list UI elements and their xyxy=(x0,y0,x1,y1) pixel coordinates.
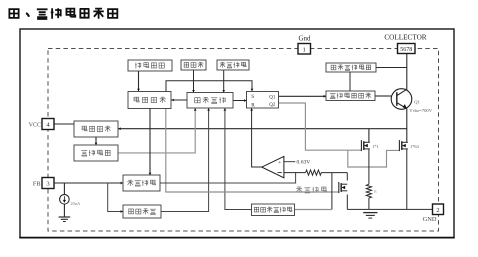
block 峰值电流保护 xyxy=(252,204,295,216)
current source 20uA xyxy=(60,195,70,205)
wire 振荡电路 to 变频控制 xyxy=(149,109,152,176)
wire comparator output to SR latch R input xyxy=(252,108,262,167)
wire LEB switch source down to ground bus xyxy=(346,195,348,210)
svg-text:COLLECTOR: COLLECTOR xyxy=(384,33,426,41)
wire current source to ground xyxy=(63,204,65,217)
transistor M2 mirror MOSFET 1*63 xyxy=(399,140,408,151)
wire right MOSFET source to ground bus xyxy=(406,149,408,210)
IC boundary (dashed) xyxy=(48,49,439,232)
svg-text:Vcbo=700V: Vcbo=700V xyxy=(409,108,432,113)
block 异常保护 xyxy=(187,93,233,109)
svg-text:2: 2 xyxy=(436,207,439,214)
block 热保护 xyxy=(181,60,206,70)
wire comparator plus input to 0.63V xyxy=(284,161,295,163)
block 变频控制 xyxy=(123,175,160,191)
svg-text:Q2: Q2 xyxy=(269,103,276,108)
wire 振荡电路 to SR latch S input xyxy=(166,81,252,92)
wire minus network down to 峰值电流保护 node xyxy=(331,173,333,210)
wire COLLECTOR pin to Q1 collector xyxy=(406,54,408,90)
wire 峰值电流保护 output xyxy=(295,209,332,211)
wire supply rail from Q1 emitter to 电源管理 (long horizontal) xyxy=(117,127,407,130)
wire sense resistor to ground bus xyxy=(368,198,370,209)
block 斜坡电流驱动 xyxy=(326,91,375,101)
wire 异常保护 to 振荡电路 (shutdown) xyxy=(171,99,187,102)
svg-text:Gnd: Gnd xyxy=(298,35,311,43)
wire 高压恒流启动 to collector line xyxy=(376,67,407,69)
wire 变频控制 output to comparator minus network xyxy=(160,173,296,183)
ground (FB current source) xyxy=(59,217,71,222)
block 电源异常 xyxy=(74,145,118,161)
ground (sense resistor) xyxy=(363,213,377,219)
wire 热保护 to 异常保护 xyxy=(192,70,195,93)
wire VCC pin4 to 电源管理 xyxy=(54,123,74,125)
svg-text:FB: FB xyxy=(33,181,41,188)
block 电源管理 xyxy=(74,121,118,137)
wire 电源异常 to 异常保护 xyxy=(118,108,195,153)
block 高压恒流启动 xyxy=(326,63,376,72)
transistor Q1 (NPN) xyxy=(391,89,412,110)
wire Q1 emitter down to MOSFET drain xyxy=(406,109,408,143)
svg-text:Q1: Q1 xyxy=(269,95,276,100)
SR latch U1 xyxy=(247,92,279,109)
svg-text:R: R xyxy=(251,103,255,109)
wire minus network to LEB switch drain xyxy=(346,173,348,181)
resistor R sense (vertical) xyxy=(366,184,371,198)
title 四、内部电路框图 xyxy=(9,8,117,19)
pin 3 (FB) xyxy=(42,178,54,189)
svg-text:R: R xyxy=(374,189,377,194)
wire SR latch Q1 to 斜坡电流驱动 xyxy=(279,95,327,98)
block 超压保护 xyxy=(217,60,249,70)
resistor R blanking (horizontal, on minus input) xyxy=(306,170,322,175)
wire 抖频控制 to 振荡电路 xyxy=(137,71,140,91)
wire FB pin3 to 变频控制 xyxy=(54,182,123,185)
wire FB branch to 光耦失效 xyxy=(108,183,123,212)
wire 峰值电流保护 to 异常保护 xyxy=(225,108,252,210)
wire 超压保护 to 异常保护 xyxy=(222,70,225,93)
wire 光耦失效 to 异常保护 xyxy=(161,108,209,212)
wire SR latch Q2 to mirror MOSFET gates xyxy=(279,103,362,150)
svg-text:+: + xyxy=(278,160,281,166)
svg-text:GND: GND xyxy=(423,216,437,223)
wire comparator minus input xyxy=(284,172,306,174)
wire gate bus branch to right MOSFET gate xyxy=(348,150,400,167)
wire 振荡电路 to LEB switch gate xyxy=(166,109,339,193)
svg-text:S: S xyxy=(251,94,254,100)
wire left MOSFET source to sense resistor xyxy=(368,149,370,184)
wire left MOSFET drain up to rail xyxy=(368,129,370,143)
block 抖频控制 xyxy=(128,60,172,71)
wire 异常保护 to SR latch input xyxy=(233,99,247,102)
svg-text:1*63: 1*63 xyxy=(410,144,420,149)
label 前沿消隐 (leading edge blanking) xyxy=(296,187,326,193)
wire ground bus to GND pin2 xyxy=(347,208,432,210)
pin 5678 (COLLECTOR) xyxy=(398,44,416,54)
svg-text:Q1: Q1 xyxy=(414,100,420,105)
wire minus network after resistor xyxy=(321,172,347,174)
wire 电源管理 to 电源异常 xyxy=(95,137,98,146)
wire FB branch to current source xyxy=(63,183,65,195)
block 振荡电路 xyxy=(128,92,171,109)
svg-text:5678: 5678 xyxy=(400,47,412,53)
pin 4 (VCC) xyxy=(42,119,54,130)
pin 2 (GND) xyxy=(433,204,444,215)
pin 1 (Gnd) xyxy=(298,44,311,55)
comparator U2 (0.63V) xyxy=(262,156,284,177)
svg-text:1: 1 xyxy=(303,47,306,54)
wire 斜坡电流驱动 to Q1 base xyxy=(375,95,391,97)
svg-text:1*1: 1*1 xyxy=(372,144,379,149)
svg-text:VCC: VCC xyxy=(29,123,41,129)
block 光耦失效 xyxy=(123,205,161,218)
transistor M3 LEB switch xyxy=(339,182,348,193)
wire 高压恒流启动 to 斜坡电流驱动 xyxy=(349,72,351,91)
transistor M1 mirror MOSFET 1*1 xyxy=(361,140,370,151)
svg-text:0.63V: 0.63V xyxy=(297,160,311,166)
svg-text:20uA: 20uA xyxy=(70,201,81,206)
